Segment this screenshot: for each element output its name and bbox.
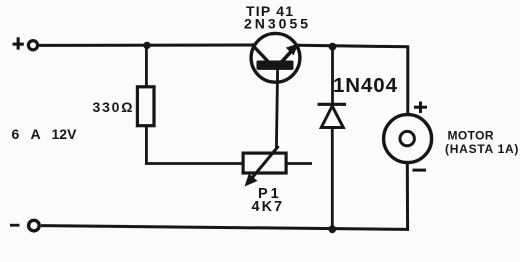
diode D1 triangle [321, 106, 343, 128]
wire resistor bottom lead [146, 127, 242, 164]
svg-text:1N404: 1N404 [333, 74, 398, 97]
wire top rail right segment [298, 45, 409, 47]
svg-text:2N3055: 2N3055 [244, 16, 311, 32]
motor M1 inner circle [400, 131, 414, 145]
wire diode top lead [331, 47, 334, 104]
transistor emitter arrow [281, 44, 299, 63]
potentiometer P1 body [243, 153, 286, 173]
transistor base bar [257, 61, 294, 70]
wire top rail left segment [39, 44, 253, 47]
svg-text:4K7: 4K7 [252, 199, 285, 215]
wire motor bottom drop [406, 163, 409, 231]
diode D1 cathode bar [318, 103, 347, 106]
svg-text:330Ω: 330Ω [93, 99, 135, 115]
svg-text:MOTOR: MOTOR [448, 128, 494, 142]
terminal negative [10, 220, 39, 231]
transistor Q1 circle [251, 33, 300, 82]
wire resistor top lead [145, 45, 148, 86]
transistor collector diagonal [252, 44, 270, 63]
wire diode bottom lead [331, 128, 334, 229]
terminal positive [13, 37, 38, 50]
svg-text:6A12V: 6A12V [12, 126, 78, 142]
motor M1 outer circle [384, 115, 432, 163]
node junction bottom at diode [328, 225, 336, 233]
node junction top at resistor [143, 42, 150, 49]
label motor minus [413, 169, 427, 172]
wire bottom rail [41, 226, 409, 230]
wire right drop to motor [406, 46, 409, 114]
node junction top at diode [329, 43, 337, 51]
label motor plus [414, 102, 427, 114]
potentiometer wiper arrow [245, 146, 279, 187]
svg-text:(HASTA 1A): (HASTA 1A) [445, 142, 519, 156]
transistor base lead wire [276, 69, 277, 148]
resistor 330 ohm [137, 87, 154, 126]
wire pot right stub [288, 162, 313, 165]
